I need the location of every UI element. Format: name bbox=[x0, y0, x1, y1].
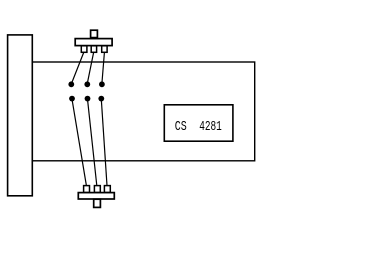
node B2 bbox=[85, 96, 91, 102]
top connector J1 knob bbox=[91, 30, 98, 37]
node B1 bbox=[69, 96, 75, 102]
node B3 bbox=[98, 96, 104, 102]
node A2 bbox=[84, 81, 90, 87]
wire pin3 to node A3 bbox=[102, 53, 105, 84]
sound card body bbox=[32, 62, 254, 161]
bottom connector pin 3 bbox=[104, 186, 110, 193]
wire node B3 to bottom pin 3 bbox=[101, 99, 107, 185]
wire pin2 to node A2 bbox=[87, 53, 93, 84]
bottom connector pin 1 bbox=[84, 186, 90, 193]
chip U1 label box bbox=[164, 105, 233, 141]
bottom connector J2 bar bbox=[78, 193, 114, 199]
top connector pin 3 bbox=[102, 46, 107, 53]
node A3 bbox=[99, 81, 105, 87]
wire node B2 to bottom pin 2 bbox=[88, 99, 97, 185]
wire node B1 to bottom pin 1 bbox=[72, 99, 86, 185]
bottom connector J2 knob bbox=[94, 199, 101, 207]
svg-text:CS: CS bbox=[175, 119, 187, 135]
left mounting bracket bbox=[8, 35, 33, 196]
top connector J1 bar bbox=[75, 39, 112, 46]
svg-text:4281: 4281 bbox=[199, 119, 222, 135]
chip value label CS 4281 bbox=[175, 119, 222, 135]
wire pin1 to node A1 bbox=[72, 53, 84, 84]
top connector pin 1 bbox=[81, 46, 87, 53]
bottom connector pin 2 bbox=[94, 186, 100, 193]
top connector pin 2 bbox=[91, 46, 96, 53]
node A1 bbox=[68, 81, 74, 87]
